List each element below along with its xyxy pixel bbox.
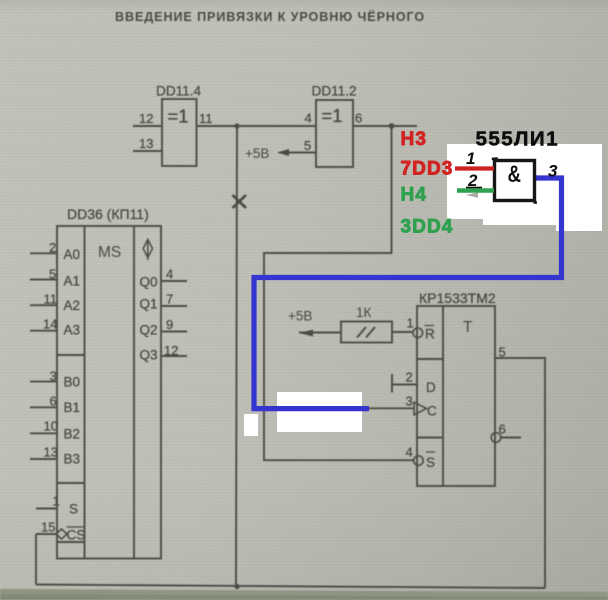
svg-text:555ЛИ1: 555ЛИ1	[476, 128, 559, 151]
svg-text:&: &	[508, 161, 522, 188]
svg-text:3DD4: 3DD4	[401, 217, 454, 238]
svg-text:1: 1	[466, 149, 475, 168]
svg-text:Н3: Н3	[401, 129, 428, 150]
svg-text:7DD3: 7DD3	[401, 159, 454, 180]
svg-text:3: 3	[548, 162, 558, 181]
svg-text:Н4: Н4	[401, 185, 428, 206]
